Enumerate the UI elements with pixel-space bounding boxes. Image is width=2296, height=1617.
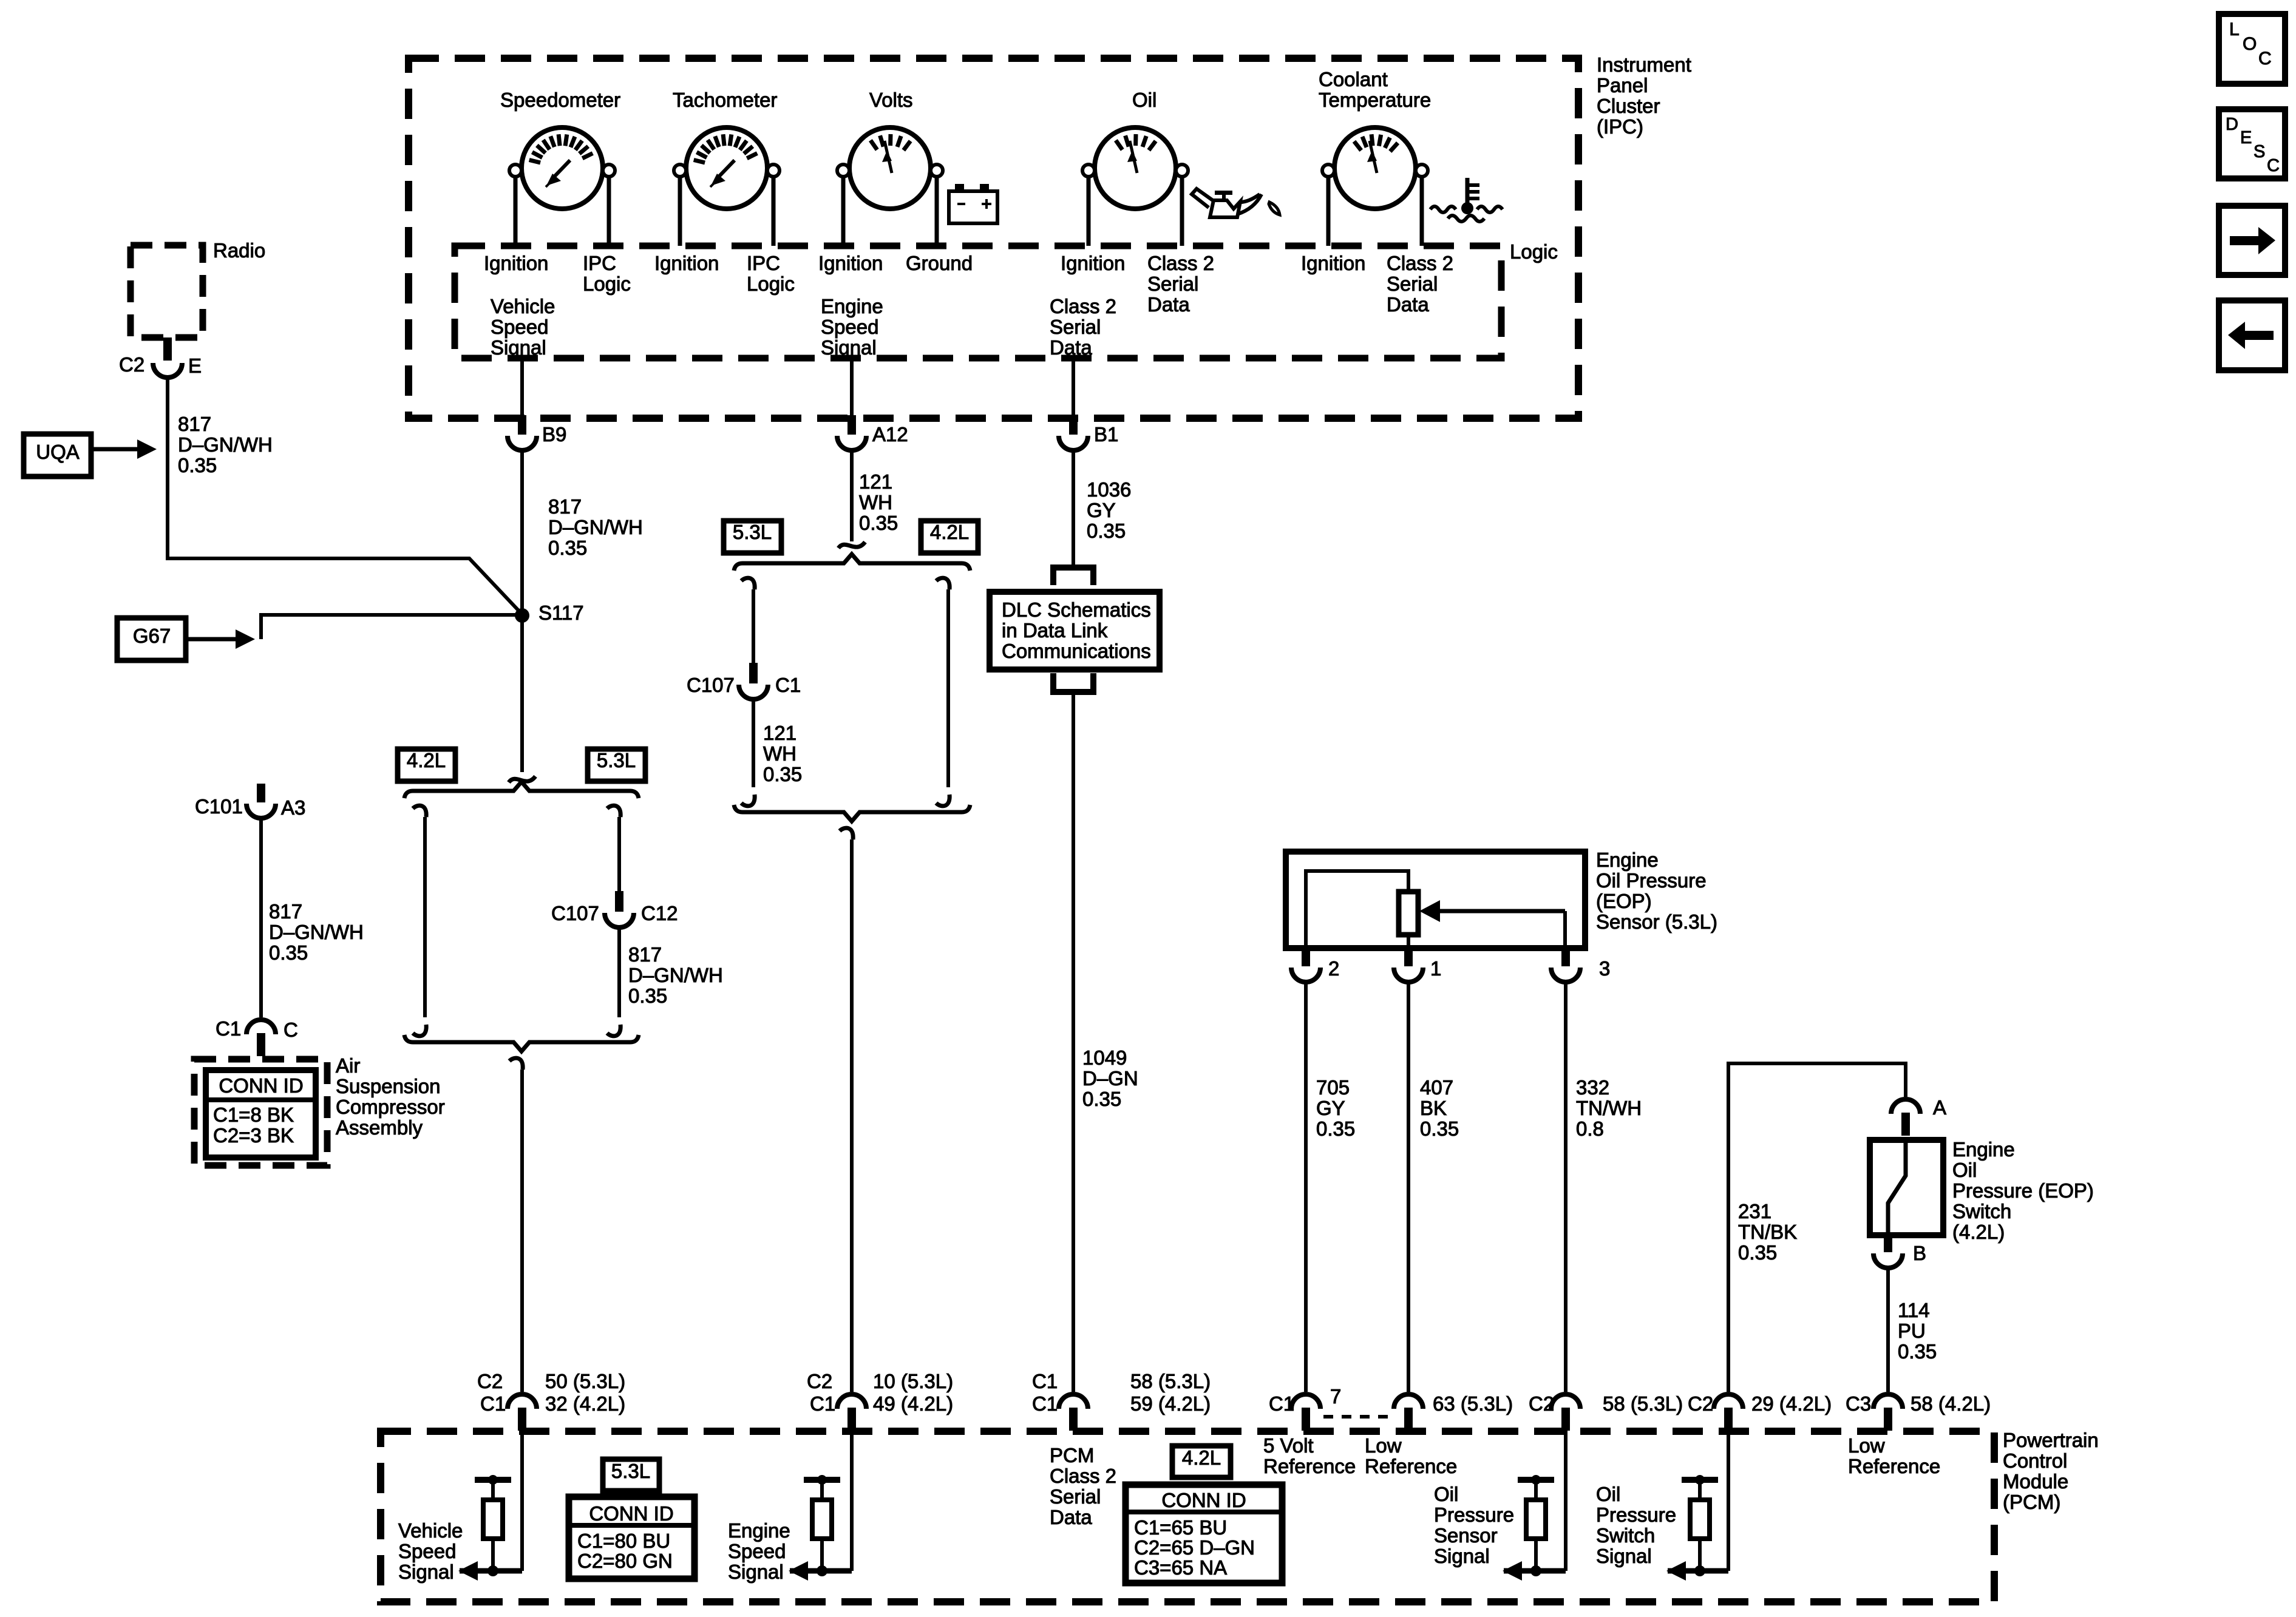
pin stub C101 A3 bbox=[257, 784, 265, 802]
svg-text:Vehicle: Vehicle bbox=[398, 1519, 463, 1542]
box 4.2L (conn id) bbox=[1172, 1446, 1231, 1477]
DLC schematics box bbox=[990, 592, 1160, 670]
svg-text:0.35: 0.35 bbox=[1898, 1340, 1937, 1363]
svg-text:Ignition: Ignition bbox=[654, 252, 719, 274]
svg-text:C2: C2 bbox=[1688, 1392, 1713, 1415]
svg-text:Speed: Speed bbox=[398, 1540, 456, 1562]
wire volts left post bbox=[841, 177, 846, 246]
svg-text:63 (5.3L): 63 (5.3L) bbox=[1433, 1392, 1513, 1415]
connector A12 bbox=[837, 436, 866, 450]
svg-text:1036: 1036 bbox=[1087, 478, 1131, 501]
wire 817 rejoin to PCM bbox=[520, 1070, 524, 1392]
svg-text:WH: WH bbox=[763, 742, 796, 765]
EOP sensor internal wire wiper to pin3 bbox=[1563, 911, 1567, 948]
bracket below DLC box bbox=[1053, 673, 1093, 692]
wire 817 4.2L branch bbox=[423, 817, 427, 1017]
svg-text:S: S bbox=[2254, 142, 2265, 161]
node S117 bbox=[515, 608, 529, 623]
pin stub B1 bbox=[1069, 415, 1078, 435]
brace speedometer split bbox=[404, 782, 639, 798]
svg-text:Suspension: Suspension bbox=[336, 1075, 440, 1097]
svg-text:7: 7 bbox=[1330, 1385, 1341, 1408]
wire vehicle speed into PCM bbox=[520, 1431, 524, 1571]
svg-text:D–GN/WH: D–GN/WH bbox=[548, 516, 643, 538]
svg-text:E: E bbox=[188, 354, 202, 377]
svg-text:Instrument: Instrument bbox=[1597, 53, 1691, 76]
svg-text:(PCM): (PCM) bbox=[2003, 1491, 2060, 1513]
svg-text:Logic: Logic bbox=[583, 273, 631, 295]
gauge tachometer bbox=[686, 127, 767, 209]
svg-text:Serial: Serial bbox=[1050, 316, 1101, 338]
svg-text:UQA: UQA bbox=[36, 441, 80, 463]
svg-text:Class 2: Class 2 bbox=[1147, 252, 1214, 274]
svg-text:Serial: Serial bbox=[1387, 273, 1438, 295]
connector C2 E bbox=[153, 363, 182, 378]
wire 114 PU bbox=[1886, 1268, 1890, 1392]
svg-text:Class 2: Class 2 bbox=[1387, 252, 1453, 274]
svg-text:Engine: Engine bbox=[728, 1519, 790, 1542]
wire oil left post bbox=[1087, 177, 1091, 246]
connector B bbox=[1873, 1253, 1903, 1268]
wire oil pressure sensor into PCM bbox=[1564, 1431, 1567, 1571]
svg-text:121: 121 bbox=[763, 722, 796, 744]
svg-text:817: 817 bbox=[269, 900, 302, 923]
wire 1036 B1 down bbox=[1072, 449, 1075, 565]
svg-text:0.35: 0.35 bbox=[548, 537, 587, 559]
connector B1 bbox=[1059, 436, 1088, 450]
connector EOP pin 3 bbox=[1551, 968, 1580, 982]
gauge speedometer bbox=[521, 127, 603, 209]
svg-text:TN/BK: TN/BK bbox=[1738, 1221, 1797, 1243]
svg-text:3: 3 bbox=[1599, 957, 1610, 980]
wire class 2 serial data inside IPC bbox=[1072, 358, 1075, 415]
dashed jumper pin7 to pin63 bbox=[1323, 1415, 1396, 1419]
svg-text:Oil: Oil bbox=[1952, 1159, 1977, 1181]
svg-text:Ignition: Ignition bbox=[818, 252, 883, 274]
svg-text:D: D bbox=[2226, 115, 2238, 134]
radio dashed box bbox=[131, 245, 203, 337]
pin stub A12 bbox=[847, 415, 856, 435]
svg-text:Speed: Speed bbox=[491, 316, 548, 338]
svg-text:Ignition: Ignition bbox=[484, 252, 548, 274]
pin stub EOP 3 bbox=[1561, 948, 1570, 966]
svg-text:Class 2: Class 2 bbox=[1050, 1465, 1116, 1487]
hook right branch bottom (speedo) bbox=[607, 1025, 620, 1036]
svg-text:C: C bbox=[2258, 49, 2272, 69]
potentiometer (EOP sensor) bbox=[1399, 892, 1418, 935]
wire 332 TN/WH bbox=[1564, 982, 1567, 1392]
wire 121 5.3L branch lower bbox=[752, 699, 755, 787]
svg-text:Signal: Signal bbox=[821, 336, 877, 359]
svg-text:C1: C1 bbox=[1032, 1392, 1058, 1415]
svg-text:5 Volt: 5 Volt bbox=[1263, 1434, 1314, 1457]
svg-text:Switch: Switch bbox=[1952, 1200, 2011, 1222]
svg-text:C1=65 BU: C1=65 BU bbox=[1134, 1516, 1227, 1539]
hook below A12 rejoin bbox=[840, 828, 853, 839]
box UQA bbox=[24, 434, 91, 476]
svg-text:10 (5.3L): 10 (5.3L) bbox=[873, 1370, 953, 1392]
svg-text:C12: C12 bbox=[641, 902, 678, 924]
CONN ID table (4.2L) bbox=[1126, 1485, 1282, 1583]
connector C107 C12 bbox=[605, 913, 634, 927]
wire tachometer left post bbox=[678, 177, 682, 246]
svg-text:817: 817 bbox=[178, 413, 211, 435]
wire coolant left post bbox=[1326, 177, 1331, 246]
svg-text:C3=65 NA: C3=65 NA bbox=[1134, 1556, 1227, 1579]
svg-text:CONN ID: CONN ID bbox=[589, 1502, 673, 1525]
CONN ID table (compressor) bbox=[206, 1070, 316, 1158]
hook left branch top (speedo) bbox=[413, 805, 426, 817]
svg-text:Sensor (5.3L): Sensor (5.3L) bbox=[1596, 910, 1717, 933]
connector C2/C1 10/49 bbox=[837, 1394, 866, 1409]
svg-text:DLC Schematics: DLC Schematics bbox=[1002, 598, 1151, 621]
pullup resistor oil pressure switch bbox=[1682, 1477, 1718, 1483]
svg-text:PCM: PCM bbox=[1050, 1444, 1094, 1466]
wire engine speed signal inside IPC bbox=[850, 358, 854, 415]
hook right branch top (speedo) bbox=[607, 805, 620, 817]
svg-text:Compressor: Compressor bbox=[336, 1096, 445, 1118]
svg-text:TN/WH: TN/WH bbox=[1576, 1097, 1642, 1119]
svg-text:0.35: 0.35 bbox=[269, 941, 308, 964]
svg-text:PU: PU bbox=[1898, 1320, 1926, 1342]
svg-text:Oil: Oil bbox=[1596, 1483, 1620, 1505]
svg-text:A: A bbox=[1933, 1096, 1946, 1119]
svg-text:Speed: Speed bbox=[728, 1540, 786, 1562]
svg-text:Oil Pressure: Oil Pressure bbox=[1596, 869, 1707, 892]
wire 817 B9 to S117 bbox=[520, 449, 524, 615]
svg-text:5.3L: 5.3L bbox=[611, 1460, 650, 1482]
svg-text:Sensor: Sensor bbox=[1434, 1524, 1498, 1547]
svg-text:Speedometer: Speedometer bbox=[500, 89, 620, 111]
svg-text:A12: A12 bbox=[872, 423, 908, 446]
svg-text:C1: C1 bbox=[1032, 1370, 1058, 1392]
wire speedometer left post bbox=[514, 177, 518, 246]
box 4.2L (speedometer split) bbox=[398, 749, 455, 781]
pin stub B9 bbox=[518, 415, 526, 435]
wire speedometer right post bbox=[607, 177, 611, 246]
hook right branch top (A12) bbox=[936, 578, 949, 589]
svg-text:B1: B1 bbox=[1094, 423, 1118, 446]
CONN ID table (5.3L) bbox=[569, 1497, 695, 1579]
wire 817 5.3L branch upper bbox=[617, 817, 621, 891]
air suspension compressor dashed box bbox=[194, 1059, 327, 1165]
connector C101 A3 bbox=[246, 804, 276, 818]
svg-text:GY: GY bbox=[1316, 1097, 1345, 1119]
svg-text:114: 114 bbox=[1898, 1299, 1930, 1321]
svg-text:C1: C1 bbox=[1269, 1392, 1294, 1415]
svg-text:0.35: 0.35 bbox=[1420, 1117, 1459, 1140]
svg-text:D–GN/WH: D–GN/WH bbox=[178, 433, 273, 456]
box 4.2L (A12 split) bbox=[921, 521, 978, 553]
wire G67 to S117 bbox=[261, 615, 522, 639]
svg-text:C1: C1 bbox=[216, 1017, 241, 1040]
svg-text:C2: C2 bbox=[807, 1370, 832, 1392]
svg-text:D–GN/WH: D–GN/WH bbox=[269, 921, 364, 943]
svg-text:(IPC): (IPC) bbox=[1597, 115, 1643, 138]
svg-text:B: B bbox=[1913, 1242, 1926, 1264]
wire oil right post bbox=[1180, 177, 1184, 246]
svg-text:705: 705 bbox=[1316, 1076, 1350, 1099]
svg-text:Data: Data bbox=[1050, 336, 1092, 359]
hook left branch bottom (speedo) bbox=[413, 1025, 426, 1036]
hook left branch top (A12) bbox=[741, 578, 755, 589]
svg-text:Data: Data bbox=[1050, 1506, 1092, 1528]
svg-text:C2: C2 bbox=[477, 1370, 503, 1392]
svg-text:CONN ID: CONN ID bbox=[219, 1074, 303, 1097]
svg-text:Signal: Signal bbox=[491, 336, 546, 359]
wire 121 rejoin to PCM bbox=[850, 839, 854, 1392]
svg-text:C107: C107 bbox=[551, 902, 599, 924]
gauge coolant temperature bbox=[1334, 127, 1416, 209]
svg-text:Control: Control bbox=[2003, 1449, 2067, 1472]
svg-text:Serial: Serial bbox=[1050, 1485, 1101, 1508]
brace speedometer rejoin bbox=[404, 1035, 639, 1051]
svg-text:0.35: 0.35 bbox=[1738, 1241, 1777, 1264]
svg-text:C1: C1 bbox=[810, 1392, 835, 1415]
svg-text:Logic: Logic bbox=[1510, 240, 1558, 263]
svg-text:Coolant: Coolant bbox=[1319, 68, 1388, 90]
wire 817 S117 down bbox=[520, 615, 524, 772]
pin stub EOP switch B bbox=[1884, 1235, 1892, 1252]
svg-text:Reference: Reference bbox=[1263, 1455, 1356, 1477]
svg-text:0.35: 0.35 bbox=[178, 454, 217, 476]
IPC connector strip dashed box bbox=[455, 246, 1501, 358]
svg-text:49 (4.2L): 49 (4.2L) bbox=[873, 1392, 953, 1415]
potentiometer wiper arrow bbox=[1436, 909, 1565, 914]
svg-text:Speed: Speed bbox=[821, 316, 878, 338]
svg-text:C101: C101 bbox=[195, 795, 243, 818]
svg-text:C2=80 GN: C2=80 GN bbox=[577, 1550, 673, 1572]
svg-text:Signal: Signal bbox=[1434, 1545, 1490, 1567]
svg-text:Switch: Switch bbox=[1596, 1524, 1655, 1547]
svg-text:0.35: 0.35 bbox=[628, 985, 667, 1007]
brace A12 split bbox=[734, 554, 970, 571]
wire 121 4.2L branch bbox=[946, 589, 950, 787]
arrow from UQA bbox=[91, 447, 141, 452]
svg-text:Oil: Oil bbox=[1434, 1483, 1458, 1505]
svg-text:C1: C1 bbox=[480, 1392, 506, 1415]
svg-text:Pressure: Pressure bbox=[1434, 1503, 1514, 1526]
svg-text:332: 332 bbox=[1576, 1076, 1609, 1099]
connector C2 58 (5.3L) bbox=[1551, 1394, 1580, 1409]
svg-text:(EOP): (EOP) bbox=[1596, 890, 1652, 912]
svg-text:Engine: Engine bbox=[1952, 1138, 2015, 1161]
pin stub EOP 2 bbox=[1302, 948, 1310, 966]
connector 63 bbox=[1394, 1394, 1423, 1409]
svg-text:5.3L: 5.3L bbox=[733, 521, 772, 543]
svg-text:O: O bbox=[2243, 34, 2257, 54]
svg-text:4.2L: 4.2L bbox=[1182, 1446, 1221, 1469]
svg-text:Pressure (EOP): Pressure (EOP) bbox=[1952, 1179, 2094, 1202]
svg-text:Panel: Panel bbox=[1597, 74, 1648, 97]
wire vehicle speed signal inside IPC bbox=[520, 358, 524, 415]
battery symbol bbox=[949, 191, 997, 223]
wire 817 5.3L branch lower bbox=[617, 927, 621, 1017]
arrow from G67 bbox=[186, 637, 239, 642]
svg-text:0.35: 0.35 bbox=[1316, 1117, 1355, 1140]
legend box DESC bbox=[2219, 109, 2285, 178]
wire 817 C101 to C1 bbox=[259, 818, 263, 1017]
wire 817 from radio bbox=[168, 376, 522, 614]
svg-text:Air: Air bbox=[336, 1054, 360, 1077]
pin stub radio E bbox=[163, 337, 172, 361]
gauge oil bbox=[1095, 127, 1176, 209]
svg-text:D–GN/WH: D–GN/WH bbox=[628, 964, 723, 986]
svg-text:Reference: Reference bbox=[1848, 1455, 1940, 1477]
EOP switch blade bbox=[1888, 1140, 1906, 1235]
svg-text:Oil: Oil bbox=[1132, 89, 1156, 111]
svg-text:58 (4.2L): 58 (4.2L) bbox=[1911, 1392, 1991, 1415]
svg-text:5.3L: 5.3L bbox=[597, 749, 636, 771]
svg-text:59 (4.2L): 59 (4.2L) bbox=[1130, 1392, 1211, 1415]
svg-text:Powertrain: Powertrain bbox=[2003, 1429, 2099, 1451]
wire 121 A12 down bbox=[850, 449, 854, 541]
svg-text:Pressure: Pressure bbox=[1596, 1503, 1676, 1526]
svg-text:Ignition: Ignition bbox=[1301, 252, 1365, 274]
svg-text:B9: B9 bbox=[542, 423, 566, 446]
wire 407 BK bbox=[1407, 982, 1410, 1392]
gauge volts bbox=[849, 127, 931, 209]
svg-text:Low: Low bbox=[1365, 1434, 1402, 1457]
svg-text:58 (5.3L): 58 (5.3L) bbox=[1130, 1370, 1211, 1392]
svg-text:Class 2: Class 2 bbox=[1050, 295, 1116, 317]
svg-text:231: 231 bbox=[1738, 1200, 1771, 1222]
svg-text:Volts: Volts bbox=[869, 89, 913, 111]
EOP sensor internal wire pin2 to potentiometer bbox=[1306, 871, 1408, 948]
svg-text:0.35: 0.35 bbox=[859, 512, 898, 534]
svg-text:Data: Data bbox=[1387, 293, 1429, 316]
svg-text:C1: C1 bbox=[775, 674, 801, 696]
connector C1/C1 58/59 bbox=[1059, 1394, 1088, 1409]
svg-text:Vehicle: Vehicle bbox=[491, 295, 555, 317]
svg-text:Signal: Signal bbox=[728, 1561, 784, 1583]
wire engine speed into PCM bbox=[850, 1431, 854, 1571]
coolant temperature symbol bbox=[1466, 178, 1470, 205]
bracket above DLC box bbox=[1053, 568, 1093, 585]
box 5.3L (speedometer split) bbox=[588, 749, 645, 781]
svg-text:2: 2 bbox=[1328, 957, 1339, 980]
svg-text:0.35: 0.35 bbox=[763, 763, 802, 785]
svg-text:Engine: Engine bbox=[821, 295, 883, 317]
svg-text:4.2L: 4.2L bbox=[930, 521, 969, 543]
hook below speedometer rejoin bbox=[509, 1058, 523, 1070]
pullup resistor engine speed bbox=[804, 1477, 840, 1483]
oil can symbol bbox=[1210, 200, 1240, 217]
connector EOP pin 1 bbox=[1394, 968, 1423, 982]
box 5.3L (A12 split) bbox=[724, 521, 781, 553]
wire 705 GY bbox=[1304, 982, 1308, 1392]
connector C2/C1 50/32 bbox=[508, 1394, 537, 1409]
svg-text:Assembly: Assembly bbox=[336, 1116, 423, 1139]
connector C1 7 bbox=[1291, 1394, 1320, 1409]
pin stub C107 C1 bbox=[749, 663, 758, 683]
box 5.3L (conn id) bbox=[603, 1459, 659, 1491]
svg-text:WH: WH bbox=[859, 491, 892, 514]
break symbol above speedometer split bbox=[509, 776, 535, 782]
svg-text:C: C bbox=[2267, 156, 2280, 175]
EOP switch box bbox=[1870, 1140, 1943, 1235]
svg-text:Module: Module bbox=[2003, 1470, 2068, 1493]
connector C3 58 (4.2L) bbox=[1873, 1394, 1903, 1409]
svg-text:Logic: Logic bbox=[747, 273, 795, 295]
legend box forward arrow bbox=[2219, 206, 2285, 275]
svg-text:817: 817 bbox=[628, 943, 662, 966]
legend box LOC bbox=[2219, 14, 2285, 84]
svg-text:Radio: Radio bbox=[213, 239, 265, 262]
connector EOP pin 2 bbox=[1291, 968, 1320, 982]
svg-text:in Data Link: in Data Link bbox=[1002, 619, 1108, 642]
EOP sensor internal wire below potentiometer bbox=[1407, 935, 1410, 948]
wire coolant right post bbox=[1420, 177, 1424, 246]
svg-text:Tachometer: Tachometer bbox=[673, 89, 777, 111]
svg-text:C2=3 BK: C2=3 BK bbox=[213, 1124, 294, 1147]
pin stub C107 C12 bbox=[615, 891, 623, 912]
break symbol above A12 split bbox=[838, 542, 865, 548]
wire tachometer right post bbox=[772, 177, 776, 246]
svg-text:1: 1 bbox=[1430, 957, 1441, 980]
svg-text:S117: S117 bbox=[538, 602, 584, 624]
svg-text:Engine: Engine bbox=[1596, 849, 1659, 871]
svg-text:IPC: IPC bbox=[583, 252, 616, 274]
connector C1 C bbox=[246, 1020, 276, 1034]
box G67 bbox=[117, 618, 186, 660]
svg-text:Serial: Serial bbox=[1147, 273, 1198, 295]
svg-text:C: C bbox=[284, 1019, 298, 1041]
svg-text:C2: C2 bbox=[1529, 1392, 1554, 1415]
connector C2 29 (4.2L) bbox=[1714, 1394, 1743, 1409]
svg-text:A3: A3 bbox=[281, 796, 305, 819]
svg-text:Reference: Reference bbox=[1365, 1455, 1457, 1477]
svg-text:GY: GY bbox=[1087, 499, 1116, 521]
svg-text:50 (5.3L): 50 (5.3L) bbox=[545, 1370, 625, 1392]
svg-text:Data: Data bbox=[1147, 293, 1190, 316]
svg-text:Ignition: Ignition bbox=[1061, 252, 1125, 274]
svg-text:0.35: 0.35 bbox=[1082, 1088, 1121, 1110]
PCM dashed box bbox=[381, 1431, 1994, 1602]
connector A bbox=[1891, 1099, 1920, 1114]
brace A12 rejoin bbox=[734, 805, 970, 821]
svg-text:BK: BK bbox=[1420, 1097, 1447, 1119]
EOP sensor box bbox=[1286, 852, 1585, 948]
svg-text:1049: 1049 bbox=[1082, 1046, 1127, 1069]
hook right branch bottom (A12) bbox=[936, 795, 949, 806]
svg-text:(4.2L): (4.2L) bbox=[1952, 1221, 2005, 1243]
wire 121 5.3L branch upper bbox=[752, 589, 755, 663]
svg-text:Ground: Ground bbox=[906, 252, 973, 274]
wire volts right post bbox=[935, 177, 939, 246]
wire 231 TN/BK bbox=[1728, 1063, 1906, 1392]
svg-text:C107: C107 bbox=[687, 674, 735, 696]
svg-text:IPC: IPC bbox=[747, 252, 780, 274]
svg-text:L: L bbox=[2229, 19, 2240, 39]
svg-text:Signal: Signal bbox=[1596, 1545, 1652, 1567]
svg-text:C1=80 BU: C1=80 BU bbox=[577, 1530, 670, 1552]
svg-text:C3: C3 bbox=[1846, 1392, 1871, 1415]
svg-text:CONN ID: CONN ID bbox=[1161, 1489, 1246, 1511]
svg-text:58 (5.3L): 58 (5.3L) bbox=[1603, 1392, 1683, 1415]
svg-text:121: 121 bbox=[859, 470, 892, 493]
svg-text:D–GN: D–GN bbox=[1082, 1067, 1138, 1090]
wire oil pressure switch into PCM bbox=[1727, 1431, 1730, 1571]
svg-text:32 (4.2L): 32 (4.2L) bbox=[545, 1392, 625, 1415]
svg-text:Temperature: Temperature bbox=[1319, 89, 1431, 111]
svg-text:Cluster: Cluster bbox=[1597, 95, 1660, 117]
connector C107 C1 bbox=[739, 685, 768, 699]
svg-text:4.2L: 4.2L bbox=[407, 749, 446, 771]
svg-text:Low: Low bbox=[1848, 1434, 1885, 1457]
svg-text:Communications: Communications bbox=[1002, 640, 1151, 662]
IPC outer dashed box bbox=[409, 58, 1578, 418]
